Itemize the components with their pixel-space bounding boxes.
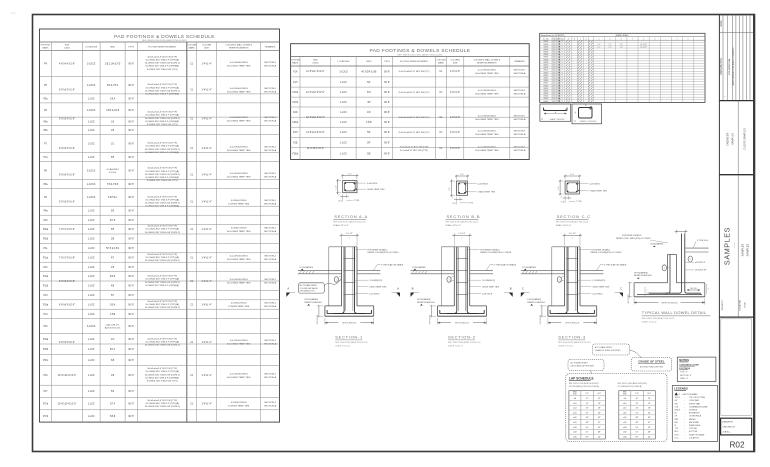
- wall footing bottom rebar: [637, 294, 702, 296]
- svg-text:SECTION-A: SECTION-A: [514, 72, 526, 75]
- svg-text:SECTION-A: SECTION-A: [264, 404, 276, 407]
- svg-text:A: A: [287, 287, 289, 291]
- svg-text:CH021: CH021: [543, 93, 548, 95]
- SECTION-2 small column dim: [452, 276, 455, 278]
- svg-text:SECTION-A: SECTION-A: [264, 90, 276, 93]
- svg-text:1/FTG(VARIES): 1/FTG(VARIES): [527, 298, 541, 301]
- svg-text:SECTION-1: SECTION-1: [264, 117, 276, 119]
- wall rebar: [669, 255, 671, 292]
- svg-text:1-LOC: 1-LOC: [88, 375, 95, 377]
- svg-text:1'-4": 1'-4": [335, 185, 337, 189]
- svg-text:1'-2": 1'-2": [597, 46, 601, 48]
- svg-text:P9a: P9a: [43, 211, 48, 213]
- svg-text:90'-6": 90'-6": [128, 184, 134, 186]
- svg-text:FOOTING: FOOTING: [41, 45, 51, 47]
- svg-text:90'-6": 90'-6": [128, 349, 134, 351]
- svg-text:8-CH001 810" DWLS LW (TY.5): 8-CH001 810" DWLS LW (TY.5): [147, 124, 178, 126]
- svg-text:PAD FOOTINGS & DOWELS SCHE: PAD FOOTINGS & DOWELS SCHEDULE: [370, 48, 471, 54]
- svg-text:COLUMN & WALL DOWELS: COLUMN & WALL DOWELS: [473, 58, 500, 61]
- svg-text:TYPICAL: TYPICAL: [689, 427, 697, 430]
- corner rebar dots section SECTION C-C: [567, 183, 569, 185]
- svg-text:10-CH002 810" DWLS P (TYP.)(A): 10-CH002 810" DWLS P (TYP.)(A): [145, 59, 179, 62]
- svg-text:2-LOCS: 2-LOCS: [339, 71, 348, 73]
- svg-text:GRID: GRID: [366, 61, 372, 63]
- svg-text:1-LOC: 1-LOC: [88, 98, 95, 100]
- svg-text:1/T(50)VARIES: 1/T(50)VARIES: [412, 266, 426, 269]
- wall dowel label DF: [685, 269, 694, 271]
- SECTION-2 slab on grade lines: [411, 270, 455, 272]
- svg-text:T1: T1: [562, 57, 564, 59]
- svg-text:CH060 TEMP. TIES: CH060 TEMP. TIES: [478, 192, 496, 194]
- svg-text:REFER: REFER: [689, 419, 696, 421]
- svg-text:10-CH001 810" DWLS LW (CW/5.2): 10-CH001 810" DWLS LW (CW/5.2): [145, 174, 180, 176]
- svg-text:1-LOC: 1-LOC: [340, 102, 347, 104]
- svg-text:B: B: [510, 287, 512, 291]
- svg-text:10-CH002 810" DWLS P (TYP.)(A): 10-CH002 810" DWLS P (TYP.)(A): [145, 340, 179, 343]
- svg-text:LOCATIONS: LOCATIONS: [85, 45, 97, 48]
- svg-text:T1: T1: [562, 93, 564, 95]
- svg-text:T/FTG: T/FTG: [675, 397, 681, 399]
- svg-text:48": 48": [636, 422, 639, 424]
- svg-text:SECTION-A: SECTION-A: [514, 93, 526, 96]
- svg-text:1-LOC: 1-LOC: [88, 211, 95, 213]
- svg-text:CH011: CH011: [543, 67, 548, 69]
- svg-text:1'-4": 1'-4": [449, 187, 451, 191]
- svg-text:SECTION-A: SECTION-A: [264, 230, 276, 233]
- svg-text:CH009: CH009: [543, 62, 548, 64]
- svg-text:3-CH003 TEMP. TIES: 3-CH003 TEMP. TIES: [228, 306, 250, 308]
- legends section mark symbol: [675, 392, 678, 395]
- SECTION-3 footing outline: [548, 305, 565, 307]
- svg-text:37": 37": [648, 422, 651, 424]
- svg-text:4/7.8.5/F & 3/8: 4/7.8.5/F & 3/8: [361, 71, 377, 73]
- svg-text:SCALE: 1/2"=1'-0": SCALE: 1/2"=1'-0": [556, 224, 572, 227]
- svg-text:T1: T1: [562, 46, 564, 48]
- svg-text:LW: LW: [675, 400, 678, 402]
- svg-text:1'-4"x1'-4": 1'-4"x1'-4": [201, 148, 211, 150]
- svg-text:P11a: P11a: [43, 257, 49, 259]
- svg-text:T1: T1: [562, 70, 564, 72]
- svg-text:REF SCHED: REF SCHED: [628, 293, 630, 303]
- svg-text:3x2x5-ø5x4'-6" BOT LW (TYP): 3x2x5-ø5x4'-6" BOT LW (TYP): [147, 168, 177, 170]
- svg-text:1/2: 1/2: [337, 281, 339, 283]
- wall dowel top note leader: [650, 240, 668, 243]
- shape T1 closed stirrup: [579, 108, 593, 119]
- svg-text:SECTION-1: SECTION-1: [264, 374, 276, 376]
- svg-text:SCALE: 1/2"=1'-0": SCALE: 1/2"=1'-0": [333, 224, 349, 227]
- svg-text:3.5/H & J: 3.5/H & J: [108, 197, 117, 199]
- svg-text:TOP - 2": TOP - 2": [680, 372, 688, 374]
- callout grade leader: [630, 350, 642, 358]
- svg-text:3x2x5-ø5x4'-6" BOT LW (TYP): 3x2x5-ø5x4'-6" BOT LW (TYP): [147, 112, 177, 114]
- svg-text:T1: T1: [562, 96, 564, 98]
- svg-text:MARK: MARK: [189, 47, 196, 50]
- svg-text:90'-6": 90'-6": [128, 121, 134, 123]
- SECTION-2 slab leader note: [490, 264, 493, 266]
- SECTION-1 slab on grade lines: [298, 270, 342, 272]
- svg-text:T1: T1: [562, 80, 564, 82]
- leader ties label section SECTION A-A: [356, 188, 366, 190]
- svg-text:BOTTOM: BOTTOM: [689, 431, 697, 433]
- slab on grade right of wall: [686, 247, 709, 249]
- middle schedule column lines: [299, 57, 301, 160]
- svg-text:JOB No. -: JOB No. -: [722, 432, 731, 434]
- svg-text:REF: S/SH.3 DRG (AS AT 07/04-1: REF: S/SH.3 DRG (AS AT 07/04-13-22): [446, 221, 479, 224]
- svg-text:SECTION B-B: SECTION B-B: [447, 214, 481, 219]
- svg-text:1'-4"x1'-4": 1'-4"x1'-4": [201, 119, 211, 121]
- svg-text:12'-0"x8'-0"x2'-0": 12'-0"x8'-0"x2'-0": [307, 148, 324, 150]
- svg-text:10-CH001 810" DWLS LW (CW/5.2): 10-CH001 810" DWLS LW (CW/5.2): [145, 374, 180, 376]
- svg-text:Type: Type: [561, 38, 564, 40]
- bar bending schedule outer frame: [540, 33, 705, 102]
- svg-text:SIZE: SIZE: [65, 45, 70, 47]
- left schedule column lines: [51, 42, 53, 422]
- SECTION-3 leader column label: [578, 279, 591, 281]
- svg-text:REFER SCHEDULE: REFER SCHEDULE: [527, 302, 545, 304]
- svg-text:REMARKS: REMARKS: [265, 45, 276, 48]
- svg-text:3+4-CH004 DWLS: 3+4-CH004 DWLS: [230, 146, 249, 148]
- svg-text:LONG WAY: LONG WAY: [689, 399, 700, 402]
- svg-text:10-CH001 810" DWLS LW (CW/5.2): 10-CH001 810" DWLS LW (CW/5.2): [145, 203, 180, 205]
- svg-text:1-LOC: 1-LOC: [340, 112, 347, 114]
- svg-text:REF: S/SH NO./SH.3 DRG (AS AT: REF: S/SH NO./SH.3 DRG (AS AT 07/04-13-2…: [397, 53, 442, 56]
- svg-text:3+4-CH004 DWLS: 3+4-CH004 DWLS: [230, 117, 249, 119]
- svg-text:8: 8: [555, 52, 556, 54]
- svg-text:31": 31": [636, 412, 639, 414]
- svg-text:8: 8: [555, 78, 556, 80]
- svg-text:1-LOC: 1-LOC: [88, 349, 95, 351]
- SECTION-3 right leader reinf note: [578, 249, 590, 251]
- svg-text:48": 48": [598, 432, 601, 434]
- svg-text:9'-0"x9'-0"x2'-0": 9'-0"x9'-0"x2'-0": [59, 342, 75, 344]
- svg-text:12'-0"x12'-0"x2'-6": 12'-0"x12'-0"x2'-6": [306, 117, 325, 119]
- svg-text:8: 8: [555, 59, 556, 61]
- SECTION-3 leader temp ties: [580, 286, 591, 288]
- SECTION-1 footing bottom rebar: [327, 313, 371, 315]
- svg-text:REF SCHED: REF SCHED: [317, 314, 319, 324]
- svg-text:MARK: MARK: [42, 47, 49, 50]
- svg-text:8: 8: [555, 80, 556, 82]
- svg-text:EW: EW: [675, 422, 678, 424]
- tie hook section SECTION A-A: [353, 182, 356, 185]
- svg-text:3+2x11-ø8x11'-6" BOT EW (TY): 3+2x11-ø8x11'-6" BOT EW (TY): [399, 71, 430, 73]
- svg-text:REF DIM: REF DIM: [690, 288, 697, 290]
- svg-text:REF: S/SH.3 DRG (AS AT 07/04-1: REF: S/SH.3 DRG (AS AT 07/04-13-22): [448, 341, 481, 344]
- svg-text:3+4-CH004 DWLS: 3+4-CH004 DWLS: [230, 173, 249, 175]
- section SECTION B-B dimension line top: [456, 175, 458, 180]
- svg-text:90'-6": 90'-6": [384, 132, 390, 134]
- svg-text:4.5/8: 4.5/8: [110, 314, 116, 316]
- svg-text:3x3-CH003 TEMP. TIES: 3x3-CH003 TEMP. TIES: [227, 344, 251, 346]
- tie hook section SECTION B-B: [464, 182, 467, 185]
- SECTION-2 leader temp ties: [470, 286, 481, 288]
- svg-text:FOR REINF. DETAILS: FOR REINF. DETAILS: [591, 248, 611, 251]
- svg-text:2-LOCS: 2-LOCS: [87, 64, 96, 66]
- svg-text:1/T(50)VARIES: 1/T(50)VARIES: [522, 266, 536, 269]
- cover dim bottom section SECTION C-C: [564, 196, 566, 204]
- svg-text:3+2x11-ø8x11'-6" BOT EW (TY): 3+2x11-ø8x11'-6" BOT EW (TY): [399, 117, 430, 119]
- svg-text:69": 69": [586, 437, 589, 439]
- svg-text:1'-6"x1'-6": 1'-6"x1'-6": [450, 117, 460, 119]
- svg-text:90'-6": 90'-6": [128, 229, 134, 231]
- svg-text:10-CH001 810" DWLS LW (CW/5.2): 10-CH001 810" DWLS LW (CW/5.2): [145, 118, 180, 120]
- svg-text:P8a: P8a: [43, 184, 48, 186]
- SECTION-3 rebar bottom hooks: [557, 311, 568, 314]
- SECTION-1 bottom dimension: [324, 318, 326, 325]
- svg-text:P16: P16: [43, 375, 48, 377]
- svg-text:23": 23": [636, 408, 639, 410]
- svg-text:48": 48": [648, 432, 651, 434]
- svg-text:1'-2": 1'-2": [620, 46, 624, 48]
- svg-text:90'-6": 90'-6": [384, 92, 390, 94]
- svg-text:3+4-CH016 DWLS: 3+4-CH016 DWLS: [478, 147, 497, 149]
- svg-text:3x2x5-ø5x4'-6" BOT LW (TYP): 3x2x5-ø5x4'-6" BOT LW (TYP): [147, 226, 177, 228]
- svg-text:1-LOC: 1-LOC: [88, 267, 95, 269]
- svg-text:2: 2: [572, 238, 573, 240]
- svg-text:3-CH003 TEMP. TIES: 3-CH003 TEMP. TIES: [228, 405, 250, 407]
- svg-text:SECTION-1: SECTION-1: [264, 146, 276, 148]
- section SECTION A-A dimension line left: [336, 180, 341, 182]
- svg-text:1-LOC: 1-LOC: [88, 229, 95, 231]
- svg-text:4-CH021 DWLS: 4-CH021 DWLS: [231, 228, 247, 230]
- svg-text:1-LOC: 1-LOC: [88, 239, 95, 241]
- svg-text:6'-6"x6'-6"x1'-6": 6'-6"x6'-6"x1'-6": [59, 148, 75, 150]
- svg-text:90'-6": 90'-6": [128, 360, 134, 362]
- svg-text:CH014: CH014: [543, 75, 548, 77]
- svg-text:54": 54": [636, 427, 639, 429]
- svg-text:CH013: CH013: [543, 72, 548, 74]
- svg-text:F2Da: F2Da: [292, 122, 298, 124]
- shape T1 dimension ticks: [576, 106, 587, 114]
- svg-text:DOWELS: DOWELS: [689, 410, 698, 412]
- wall left vertical dim: [628, 282, 633, 284]
- svg-text:1/FTG(VARIES): 1/FTG(VARIES): [634, 271, 648, 274]
- svg-text:54": 54": [598, 437, 601, 439]
- svg-text:1'-4"x1'-4": 1'-4"x1'-4": [201, 403, 211, 405]
- svg-text:P10: P10: [43, 220, 48, 222]
- svg-text:10-CH002 810" DWLS P (TYP.)(A): 10-CH002 810" DWLS P (TYP.)(A): [145, 86, 179, 89]
- revision table date row: [719, 31, 753, 33]
- svg-text:4" TIES: 4" TIES: [467, 203, 474, 205]
- bar bending schedule rows with bar marks and shape slashes: [540, 42, 705, 44]
- svg-text:H: H: [654, 38, 655, 40]
- svg-text:COLUMN: COLUMN: [187, 45, 197, 47]
- svg-text:CH060 TEMP. TIES: CH060 TEMP. TIES: [589, 190, 607, 192]
- svg-text:90'-6": 90'-6": [128, 339, 134, 341]
- svg-text:REFER CONC. WALL(STR)-L/C DWGS: REFER CONC. WALL(STR)-L/C DWGS: [616, 237, 651, 240]
- svg-text:13": 13": [648, 398, 651, 400]
- svg-text:SHORT WAY: SHORT WAY: [689, 402, 701, 405]
- svg-text:61": 61": [586, 432, 589, 434]
- SECTION-2 column vertical rebars: [456, 247, 458, 311]
- SECTION-2 footing outline: [438, 305, 455, 307]
- svg-text:CH024: CH024: [543, 101, 548, 103]
- svg-text:90'-6": 90'-6": [128, 416, 134, 418]
- bar bending schedule right column lines: [604, 37, 606, 103]
- svg-text:3+4-CH016 DWLS: 3+4-CH016 DWLS: [478, 70, 497, 72]
- svg-text:P13a: P13a: [43, 304, 49, 306]
- wall dowel vertical bars: [681, 234, 683, 292]
- svg-text:SHAPE DETAILS: SHAPE DETAILS: [615, 34, 629, 37]
- svg-text:8-CH002 810" DWLS P (CW/H)(B): 8-CH002 810" DWLS P (CW/H)(B): [145, 66, 179, 68]
- svg-text:6/C.1: 6/C.1: [110, 349, 116, 351]
- svg-text:10-CH002 810" DWLS P (TYP.)(A): 10-CH002 810" DWLS P (TYP.)(A): [145, 256, 179, 259]
- svg-text:10-CH002 810" DWLS P (TYP.)(A): 10-CH002 810" DWLS P (TYP.)(A): [145, 303, 179, 306]
- svg-text:A/C PLEASE VERIFY: A/C PLEASE VERIFY: [595, 346, 613, 349]
- svg-text:30": 30": [598, 417, 601, 419]
- svg-text:38": 38": [636, 417, 639, 419]
- svg-text:90'-6": 90'-6": [384, 122, 390, 124]
- svg-text:90'-6": 90'-6": [384, 71, 390, 73]
- wall dowel top dimension: [676, 230, 678, 234]
- svg-text:8'-6"x8'-6"x2'-0": 8'-6"x8'-6"x2'-0": [59, 304, 75, 306]
- wall dowel bottom legs: [649, 291, 670, 293]
- svg-text:90'-6": 90'-6": [128, 157, 134, 159]
- svg-text:P10a: P10a: [43, 229, 49, 231]
- project section divider: [737, 175, 739, 317]
- svg-text:3x2x5-ø5x4'-6" BOT LW (TYP): 3x2x5-ø5x4'-6" BOT LW (TYP): [147, 276, 177, 278]
- svg-text:3x2x5-ø5x4'-6" BOT LW (TYP): 3x2x5-ø5x4'-6" BOT LW (TYP): [147, 301, 177, 303]
- svg-text:COLUMN(ICS): COLUMN(ICS): [482, 280, 495, 282]
- svg-text:P14: P14: [43, 314, 48, 316]
- svg-text:CH015: CH015: [543, 78, 548, 80]
- svg-text:1'-0 1/2": 1'-0 1/2": [458, 233, 466, 235]
- middle schedule table outer frame: [291, 44, 530, 160]
- SECTION-3 slab hatch ticks: [522, 271, 524, 274]
- svg-text:PAD FOOTINGS & DOWELS SCHE: PAD FOOTINGS & DOWELS SCHEDULE: [114, 34, 215, 40]
- svg-text:1/D: 1/D: [367, 112, 371, 114]
- svg-text:3x3-CH003 TEMP. TIES: 3x3-CH003 TEMP. TIES: [475, 119, 499, 121]
- svg-text:REF SCHED: REF SCHED: [540, 314, 542, 324]
- svg-text:REFER COLUMN(STR)-L/C DWGS: REFER COLUMN(STR)-L/C DWGS: [480, 252, 512, 254]
- svg-text:SECTION-2: SECTION-2: [448, 334, 476, 339]
- svg-text:F2D: F2D: [293, 112, 298, 114]
- svg-text:DISTRIBUTION: DISTRIBUTION: [720, 58, 723, 75]
- svg-text:P6a: P6a: [43, 121, 48, 123]
- svg-text:E: E: [621, 38, 622, 40]
- svg-text:FOOTING: FOOTING: [291, 59, 301, 61]
- svg-text:4" THK SOG: 4" THK SOG: [697, 240, 708, 242]
- SECTION-1 bar mark bubble: [334, 277, 338, 283]
- svg-text:8: 8: [555, 41, 556, 43]
- shape 2 detail box: [540, 104, 571, 121]
- svg-text:TITLE:: TITLE:: [745, 301, 747, 308]
- svg-text:3+2x11-ø8x11'-6" BOT EW (TY): 3+2x11-ø8x11'-6" BOT EW (TY): [399, 132, 430, 134]
- svg-text:3x3-CH003 TEMP. TIES: 3x3-CH003 TEMP. TIES: [475, 94, 499, 96]
- svg-text:4-CH004 DWLS: 4-CH004 DWLS: [231, 200, 247, 202]
- bar bending schedule header row: [540, 39, 705, 41]
- svg-text:4-ø8 DWLS: 4-ø8 DWLS: [589, 183, 600, 185]
- svg-text:3+2-ø5x8'-6" BOT SW (TYP): 3+2-ø5x8'-6" BOT SW (TYP): [400, 150, 428, 152]
- SECTION-2 bar mark bubble: [447, 277, 451, 283]
- svg-text:SECTION-A: SECTION-A: [264, 120, 276, 123]
- SECTION-3 small column dim: [562, 276, 565, 278]
- svg-text:8: 8: [555, 46, 556, 48]
- svg-text:Shape/Series No. (STIRRUPS): Shape/Series No. (STIRRUPS): [541, 34, 565, 37]
- svg-text:CH053 TEMP. TIES: CH053 TEMP. TIES: [482, 286, 500, 288]
- svg-text:1/5.2.1/H & 7/5: 1/5.2.1/H & 7/5: [105, 64, 121, 66]
- svg-text:DWLS: DWLS: [675, 410, 681, 412]
- svg-text:4-ø8 DWLS: 4-ø8 DWLS: [369, 293, 380, 295]
- legends box: [672, 386, 717, 442]
- SECTION-1 right leader reinf note: [355, 249, 367, 251]
- svg-text:42": 42": [598, 427, 601, 429]
- svg-text:SCALE: 1/2"=1'-0": SCALE: 1/2"=1'-0": [446, 224, 462, 227]
- svg-text:3+4-CH004 DWLS: 3+4-CH004 DWLS: [230, 88, 249, 90]
- svg-text:3/5.4: 3/5.4: [110, 304, 116, 306]
- SECTION-1 top dimension: [341, 233, 343, 246]
- svg-text:SIZE: SIZE: [453, 62, 458, 64]
- svg-text:T1: T1: [562, 78, 564, 80]
- svg-text:SECTION-A: SECTION-A: [514, 149, 526, 152]
- svg-text:1/2: 1/2: [560, 281, 562, 283]
- svg-text:23": 23": [586, 408, 589, 410]
- svg-text:CH020: CH020: [543, 90, 548, 92]
- svg-text:90'-6": 90'-6": [128, 267, 134, 269]
- svg-text:2-LOCS: 2-LOCS: [87, 85, 96, 87]
- svg-text:3+4-CH016 DWLS: 3+4-CH016 DWLS: [478, 90, 497, 92]
- leader ties label section SECTION C-C: [578, 190, 588, 192]
- svg-text:90'-6": 90'-6": [128, 286, 134, 288]
- svg-text:8: 8: [555, 93, 556, 95]
- svg-text:SECTION-1: SECTION-1: [264, 88, 276, 90]
- svg-text:48": 48": [586, 422, 589, 424]
- svg-text:SECTION-1: SECTION-1: [264, 62, 276, 64]
- svg-text:10-CH001 810" DWLS LW (CW/5.2): 10-CH001 810" DWLS LW (CW/5.2): [145, 149, 180, 151]
- svg-text:P12a: P12a: [43, 276, 49, 278]
- svg-text:3x2x5-ø5x4'-6" BOT LW (TYP): 3x2x5-ø5x4'-6" BOT LW (TYP): [147, 196, 177, 198]
- svg-text:SIZE: SIZE: [204, 48, 209, 50]
- svg-text:8-CH001 810" DWLS LW (TY.5): 8-CH001 810" DWLS LW (TY.5): [147, 69, 178, 71]
- svg-text:90'-6": 90'-6": [384, 142, 390, 144]
- svg-text:4-CH004 DWLS: 4-CH004 DWLS: [231, 303, 247, 305]
- svg-text:1-LOC: 1-LOC: [340, 142, 347, 144]
- svg-text:2-LOCS: 2-LOCS: [87, 110, 96, 112]
- svg-text:90'-6": 90'-6": [384, 153, 390, 155]
- tie hook section SECTION C-C: [576, 182, 579, 185]
- svg-text:3x3-CH003 TEMP. TIES: 3x3-CH003 TEMP. TIES: [475, 134, 499, 136]
- svg-text:3+4-CH016 DWLS: 3+4-CH016 DWLS: [230, 279, 249, 281]
- svg-text:CH007: CH007: [543, 57, 548, 59]
- svg-text:90'-6": 90'-6": [128, 404, 134, 406]
- svg-text:------: ------: [733, 242, 737, 248]
- svg-text:1-LOC: 1-LOC: [88, 339, 95, 341]
- svg-text:LxBxD: LxBxD: [312, 62, 319, 64]
- section SECTION A-A dimension line top: [342, 174, 344, 179]
- svg-text:P17b: P17b: [43, 416, 49, 418]
- svg-text:2: 2: [664, 268, 665, 270]
- svg-text:90'-6": 90'-6": [128, 257, 134, 259]
- svg-text:6/5.8: 6/5.8: [110, 276, 116, 278]
- svg-text:3x2x5-ø5x4'-6" BOT LW (TYP): 3x2x5-ø5x4'-6" BOT LW (TYP): [147, 338, 177, 340]
- svg-text:1'-2": 1'-2": [597, 44, 601, 46]
- svg-text:SAMPLES: SAMPLES: [723, 227, 732, 265]
- svg-text:1'-4"x1'-4": 1'-4"x1'-4": [201, 375, 211, 377]
- svg-text:B: B: [574, 38, 575, 40]
- svg-text:ENGINEER:: ENGINEER:: [727, 132, 730, 146]
- svg-text:1-LOC: 1-LOC: [88, 130, 95, 132]
- svg-text:CH022: CH022: [543, 96, 548, 98]
- SECTION-1 left vertical dim: [317, 305, 324, 307]
- svg-text:3x3-CH007 TEMP. TIES: 3x3-CH007 TEMP. TIES: [227, 377, 251, 379]
- svg-text:4" THK SLAB ON GRADE: 4" THK SLAB ON GRADE: [494, 263, 517, 266]
- svg-text:LAP SCHEDULE PROVIDED: LAP SCHEDULE PROVIDED: [571, 365, 595, 368]
- svg-text:REF: S/S.N.1 DRG (AS AT 04/15/: REF: S/S.N.1 DRG (AS AT 04/15/2022): [618, 382, 648, 385]
- column outline section SECTION B-B: [457, 181, 468, 195]
- svg-text:3x3-CH007 TEMP. TIES: 3x3-CH007 TEMP. TIES: [227, 65, 251, 67]
- svg-text:CH012: CH012: [543, 70, 548, 72]
- svg-text:SECTION C-C: SECTION C-C: [557, 214, 591, 219]
